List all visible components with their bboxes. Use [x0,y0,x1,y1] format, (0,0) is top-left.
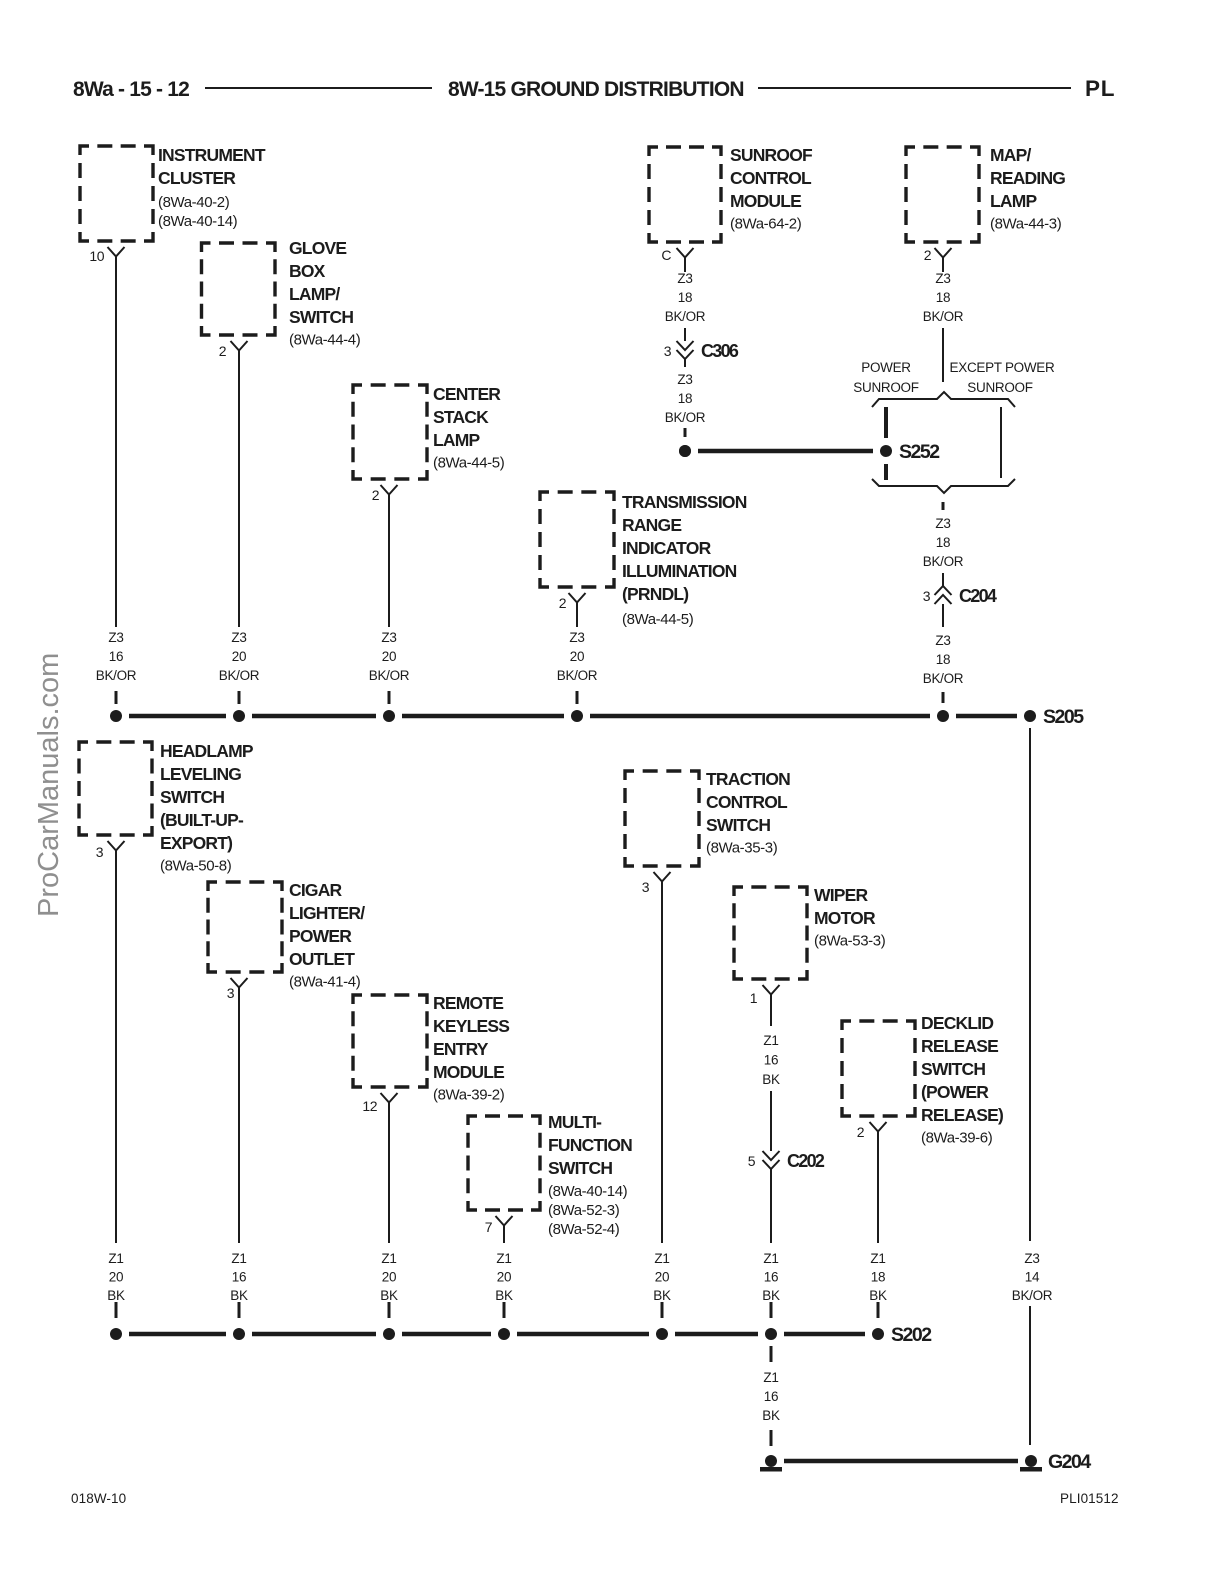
svg-text:(POWER: (POWER [921,1082,989,1102]
svg-text:Z1: Z1 [654,1251,669,1266]
svg-text:18: 18 [871,1270,885,1285]
svg-text:LEVELING: LEVELING [160,764,241,784]
svg-text:POWER: POWER [289,926,352,946]
svg-text:(8Wa-44-5): (8Wa-44-5) [433,455,505,472]
svg-text:WIPER: WIPER [814,885,869,905]
svg-text:18: 18 [936,535,950,550]
svg-text:20: 20 [382,1270,396,1285]
svg-text:18: 18 [936,290,950,305]
svg-text:16: 16 [764,1270,778,1285]
svg-text:Z3: Z3 [108,630,123,645]
svg-text:3: 3 [923,588,931,604]
svg-text:10: 10 [89,248,104,264]
svg-text:SWITCH: SWITCH [289,307,353,327]
svg-text:CLUSTER: CLUSTER [158,168,236,188]
svg-text:Z3: Z3 [381,630,396,645]
svg-text:BOX: BOX [289,261,326,281]
svg-text:BK/OR: BK/OR [557,668,598,683]
svg-text:S205: S205 [1043,706,1084,728]
svg-text:2: 2 [559,595,567,611]
svg-text:(8Wa-53-3): (8Wa-53-3) [814,933,886,950]
svg-text:SUNROOF: SUNROOF [730,145,813,165]
svg-text:3: 3 [96,844,104,860]
svg-text:SWITCH: SWITCH [160,787,224,807]
svg-text:POWER: POWER [861,360,911,375]
svg-text:Z1: Z1 [763,1251,778,1266]
svg-text:BK/OR: BK/OR [1012,1288,1053,1303]
svg-text:Z1: Z1 [763,1370,778,1385]
svg-text:KEYLESS: KEYLESS [433,1016,509,1036]
svg-text:20: 20 [232,649,246,664]
svg-text:(8Wa-35-3): (8Wa-35-3) [706,840,778,857]
svg-text:3: 3 [227,985,235,1001]
svg-text:(8Wa-52-3): (8Wa-52-3) [548,1202,620,1219]
svg-text:DECKLID: DECKLID [921,1013,993,1033]
svg-text:C306: C306 [701,341,739,361]
svg-text:BK/OR: BK/OR [369,668,410,683]
svg-text:S252: S252 [899,441,940,463]
svg-text:READING: READING [990,168,1065,188]
svg-text:(8Wa-40-14): (8Wa-40-14) [158,213,238,230]
svg-text:CONTROL: CONTROL [706,792,788,812]
svg-text:20: 20 [109,1270,123,1285]
svg-text:Z1: Z1 [108,1251,123,1266]
svg-text:(8Wa-40-2): (8Wa-40-2) [158,194,230,211]
svg-text:BK: BK [762,1288,780,1303]
svg-text:(PRNDL): (PRNDL) [622,584,688,604]
svg-text:BK: BK [107,1288,125,1303]
svg-text:C: C [661,247,671,263]
svg-text:5: 5 [748,1153,756,1169]
svg-text:Z1: Z1 [763,1033,778,1048]
svg-text:(8Wa-64-2): (8Wa-64-2) [730,216,802,233]
svg-text:BK/OR: BK/OR [923,554,964,569]
svg-text:BK: BK [653,1288,671,1303]
svg-text:BK: BK [762,1408,780,1423]
svg-text:(8Wa-41-4): (8Wa-41-4) [289,974,361,991]
svg-text:INSTRUMENT: INSTRUMENT [158,145,266,165]
svg-text:18: 18 [936,652,950,667]
svg-text:BK: BK [762,1072,780,1087]
svg-text:BK: BK [230,1288,248,1303]
svg-text:BK: BK [495,1288,513,1303]
svg-text:20: 20 [655,1270,669,1285]
svg-text:EXPORT): EXPORT) [160,833,232,853]
svg-text:8Wa - 15 - 12: 8Wa - 15 - 12 [73,78,189,101]
svg-text:BK/OR: BK/OR [219,668,260,683]
svg-text:LIGHTER/: LIGHTER/ [289,903,365,923]
svg-text:OUTLET: OUTLET [289,949,355,969]
svg-text:(8Wa-39-6): (8Wa-39-6) [921,1130,993,1147]
svg-text:MOTOR: MOTOR [814,908,876,928]
svg-text:(8Wa-39-2): (8Wa-39-2) [433,1087,505,1104]
svg-text:SWITCH: SWITCH [548,1158,612,1178]
svg-text:18: 18 [678,391,692,406]
svg-text:TRACTION: TRACTION [706,769,790,789]
svg-text:MULTI-: MULTI- [548,1112,602,1132]
svg-text:(8Wa-44-4): (8Wa-44-4) [289,332,361,349]
svg-text:(8Wa-44-5): (8Wa-44-5) [622,611,694,628]
svg-text:EXCEPT POWER: EXCEPT POWER [950,360,1055,375]
svg-text:BK/OR: BK/OR [923,309,964,324]
svg-text:STACK: STACK [433,407,489,427]
svg-text:S202: S202 [891,1324,932,1346]
svg-text:7: 7 [485,1219,493,1235]
svg-text:Z1: Z1 [496,1251,511,1266]
svg-text:Z1: Z1 [381,1251,396,1266]
svg-text:CONTROL: CONTROL [730,168,812,188]
svg-text:C204: C204 [959,586,997,606]
svg-text:Z1: Z1 [870,1251,885,1266]
svg-text:Z3: Z3 [677,271,692,286]
svg-text:20: 20 [382,649,396,664]
svg-text:3: 3 [642,879,650,895]
svg-text:BK/OR: BK/OR [665,309,706,324]
svg-text:Z1: Z1 [231,1251,246,1266]
svg-text:Z3: Z3 [935,516,950,531]
svg-text:BK/OR: BK/OR [923,671,964,686]
svg-text:2: 2 [924,247,932,263]
svg-text:REMOTE: REMOTE [433,993,503,1013]
svg-text:RANGE: RANGE [622,515,681,535]
svg-text:GLOVE: GLOVE [289,238,346,258]
svg-text:(8Wa-44-3): (8Wa-44-3) [990,216,1062,233]
svg-text:BK: BK [869,1288,887,1303]
svg-text:16: 16 [764,1053,778,1068]
svg-text:MODULE: MODULE [433,1062,504,1082]
svg-text:C202: C202 [787,1151,825,1171]
svg-text:SWITCH: SWITCH [921,1059,985,1079]
svg-text:FUNCTION: FUNCTION [548,1135,632,1155]
svg-text:(8Wa-40-14): (8Wa-40-14) [548,1183,628,1200]
svg-text:(BUILT-UP-: (BUILT-UP- [160,810,244,830]
svg-text:SWITCH: SWITCH [706,815,770,835]
svg-text:Z3: Z3 [677,372,692,387]
svg-text:ENTRY: ENTRY [433,1039,489,1059]
svg-text:BK/OR: BK/OR [665,410,706,425]
svg-text:Z3: Z3 [231,630,246,645]
svg-text:LAMP: LAMP [433,430,481,450]
svg-text:018W-10: 018W-10 [71,1491,126,1506]
svg-text:BK: BK [380,1288,398,1303]
svg-text:HEADLAMP: HEADLAMP [160,741,254,761]
svg-text:SUNROOF: SUNROOF [967,380,1032,395]
svg-text:Z3: Z3 [935,633,950,648]
svg-text:12: 12 [362,1098,377,1114]
svg-text:(8Wa-52-4): (8Wa-52-4) [548,1221,620,1238]
svg-text:TRANSMISSION: TRANSMISSION [622,492,747,512]
svg-text:ILLUMINATION: ILLUMINATION [622,561,737,581]
svg-text:(8Wa-50-8): (8Wa-50-8) [160,858,232,875]
svg-text:Z3: Z3 [935,271,950,286]
svg-text:20: 20 [497,1270,511,1285]
svg-text:RELEASE: RELEASE [921,1036,998,1056]
svg-text:PLI01512: PLI01512 [1060,1491,1119,1506]
svg-text:1: 1 [750,990,758,1006]
svg-text:16: 16 [764,1389,778,1404]
svg-text:LAMP: LAMP [990,191,1038,211]
svg-text:2: 2 [372,487,380,503]
svg-text:LAMP/: LAMP/ [289,284,340,304]
svg-text:MODULE: MODULE [730,191,801,211]
svg-text:14: 14 [1025,1270,1040,1285]
svg-text:18: 18 [678,290,692,305]
svg-text:20: 20 [570,649,584,664]
svg-text:Z3: Z3 [1024,1251,1039,1266]
svg-text:3: 3 [664,343,672,359]
svg-text:16: 16 [109,649,123,664]
svg-text:PL: PL [1085,76,1115,101]
svg-text:G204: G204 [1048,1451,1091,1473]
svg-text:INDICATOR: INDICATOR [622,538,712,558]
svg-text:16: 16 [232,1270,246,1285]
svg-text:CIGAR: CIGAR [289,880,343,900]
svg-text:8W-15 GROUND DISTRIBUTION: 8W-15 GROUND DISTRIBUTION [448,78,744,101]
svg-text:MAP/: MAP/ [990,145,1031,165]
svg-text:2: 2 [857,1124,865,1140]
svg-text:ProCarManuals.com: ProCarManuals.com [33,653,65,917]
svg-text:Z3: Z3 [569,630,584,645]
svg-text:2: 2 [219,343,227,359]
svg-text:SUNROOF: SUNROOF [853,380,918,395]
svg-text:CENTER: CENTER [433,384,501,404]
svg-text:RELEASE): RELEASE) [921,1105,1003,1125]
svg-text:BK/OR: BK/OR [96,668,137,683]
